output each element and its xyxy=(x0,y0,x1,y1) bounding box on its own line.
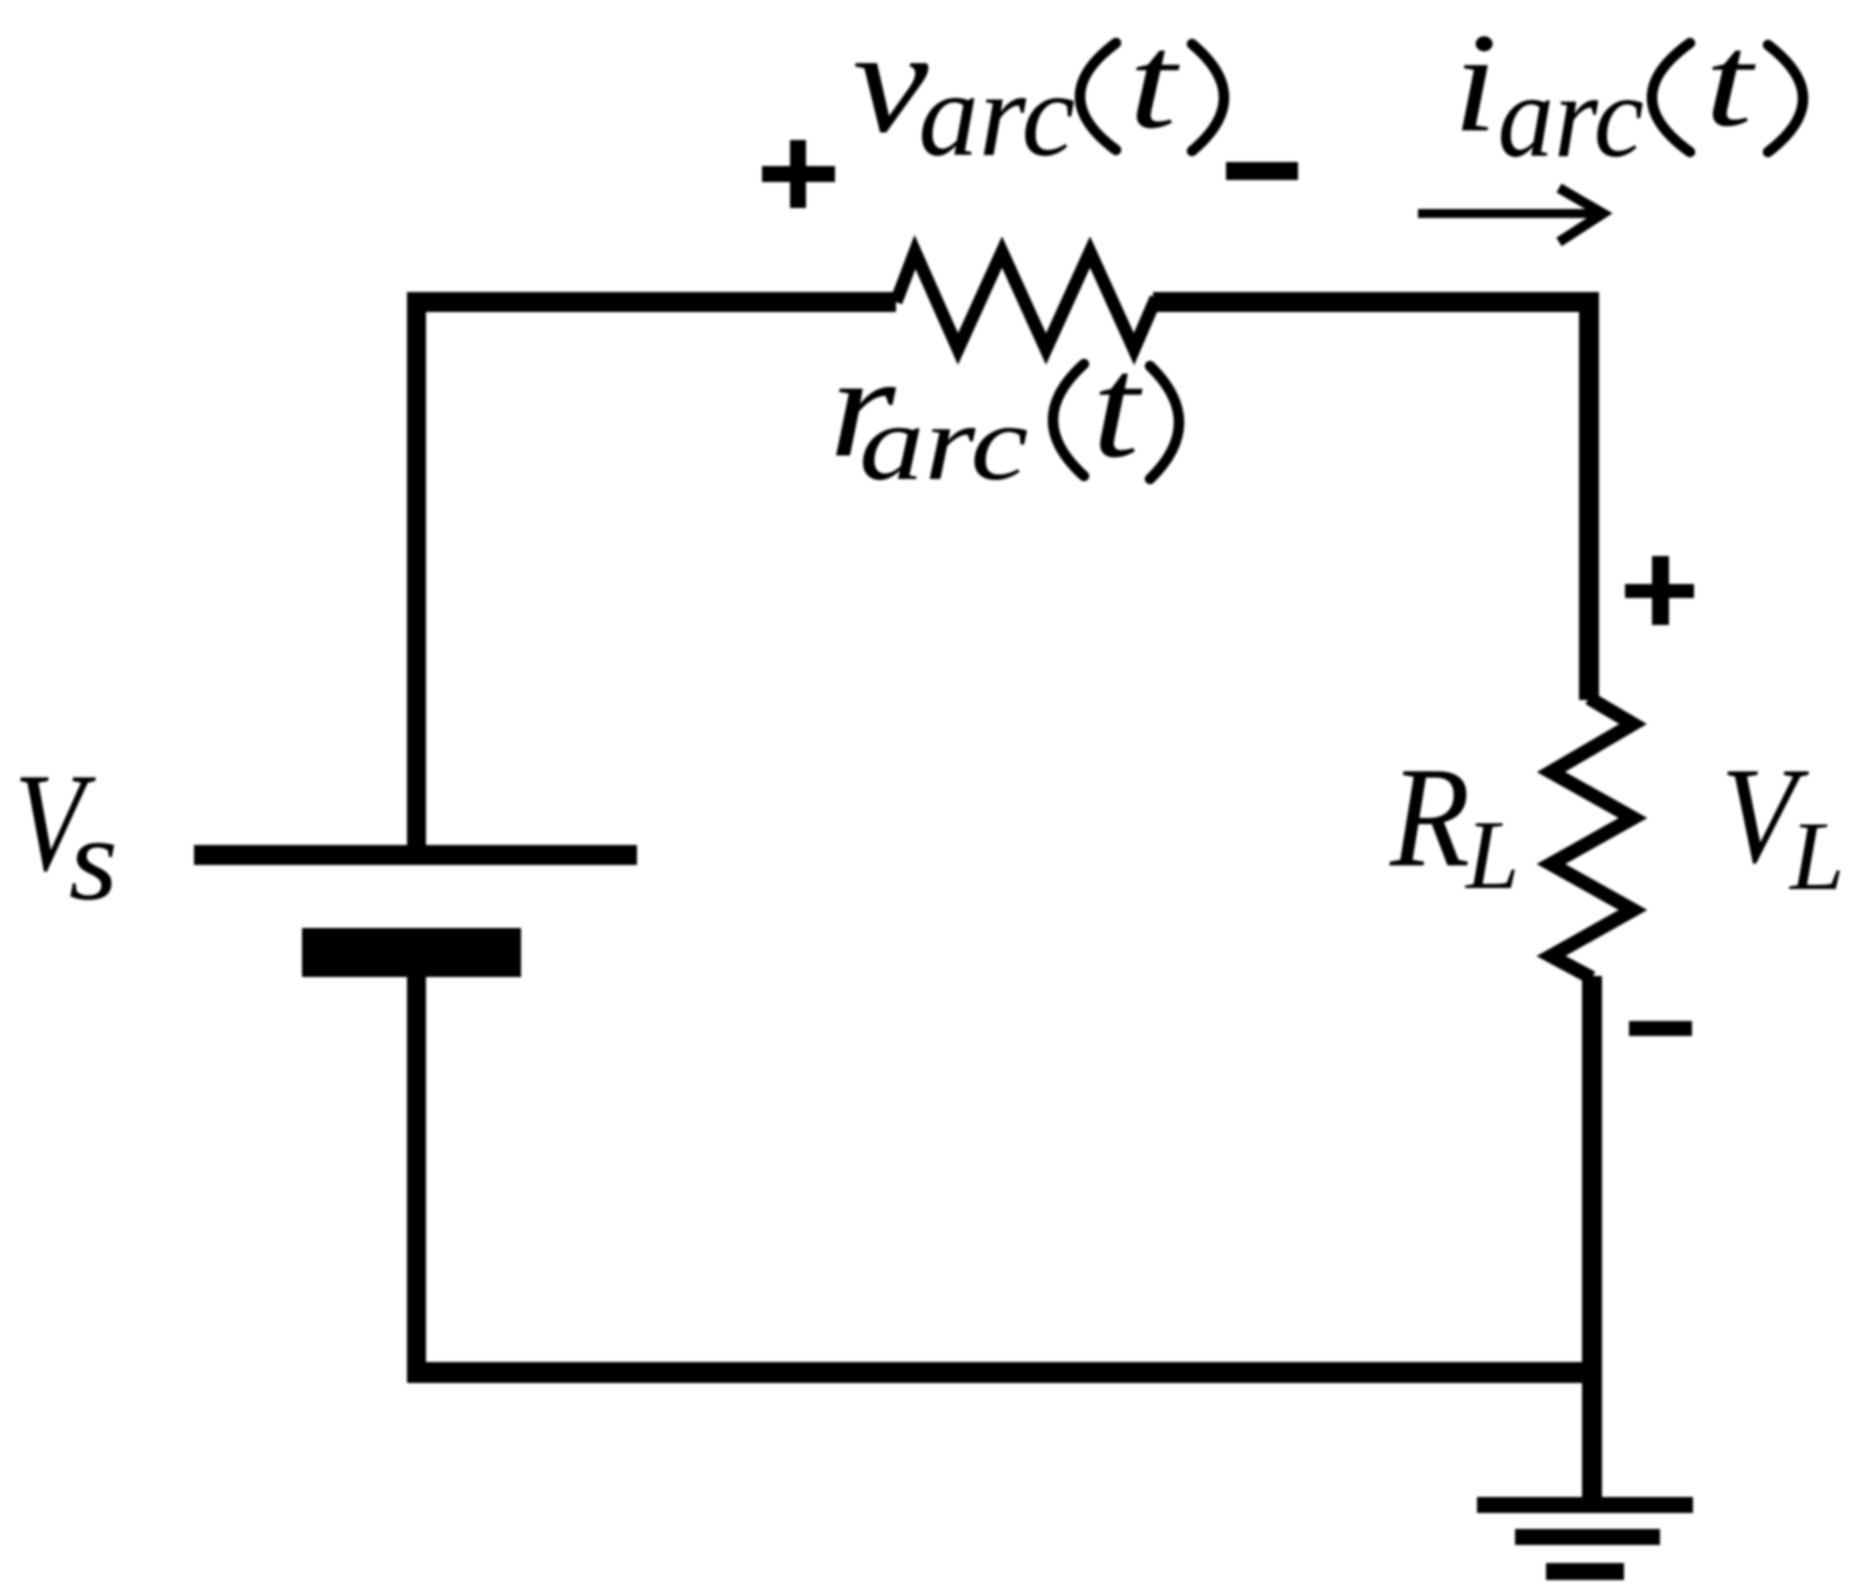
label v_arc(t) xyxy=(853,0,1224,182)
wire bottom horizontal xyxy=(407,1362,1602,1383)
ground bar 1 xyxy=(1477,1497,1693,1513)
wire right vertical upper xyxy=(1579,292,1599,700)
plus sign right (VL polarity) xyxy=(1625,556,1694,625)
svg-text:arc: arc xyxy=(859,382,1028,502)
plus sign top (v_arc polarity) xyxy=(762,140,835,208)
svg-text:arc: arc xyxy=(918,48,1075,182)
svg-text:s: s xyxy=(69,793,118,925)
label i_arc(t) xyxy=(1453,4,1803,183)
label R_L xyxy=(1389,737,1519,910)
label V_S xyxy=(14,744,118,925)
svg-text:L: L xyxy=(1788,802,1845,911)
svg-text:arc: arc xyxy=(1498,51,1644,182)
label r_arc(t) xyxy=(829,327,1179,503)
svg-text:L: L xyxy=(1464,801,1519,910)
ground bar 3 xyxy=(1546,1563,1624,1580)
svg-text:i: i xyxy=(1453,4,1497,162)
minus sign top (v_arc polarity) xyxy=(1226,162,1298,180)
resistor r_arc(t) zigzag xyxy=(896,252,1156,349)
wire left vertical lower xyxy=(407,977,426,1383)
label V_L xyxy=(1721,740,1845,911)
ground bar 2 xyxy=(1515,1529,1660,1545)
svg-text:t: t xyxy=(1092,327,1143,489)
svg-text:t: t xyxy=(1129,6,1181,157)
battery VS positive plate xyxy=(194,845,637,865)
wire left vertical upper xyxy=(407,292,426,845)
current arrow i_arc xyxy=(1418,188,1603,242)
minus sign right (VL polarity) xyxy=(1629,1021,1692,1036)
svg-text:v: v xyxy=(853,0,929,163)
svg-text:t: t xyxy=(1705,8,1757,154)
battery VS negative plate xyxy=(302,928,521,977)
wire top-right horizontal xyxy=(1153,292,1599,312)
svg-text:R: R xyxy=(1389,737,1470,897)
wire top-left horizontal xyxy=(407,292,896,312)
wire right vertical lower xyxy=(1582,976,1602,1506)
resistor RL zigzag xyxy=(1551,698,1633,978)
